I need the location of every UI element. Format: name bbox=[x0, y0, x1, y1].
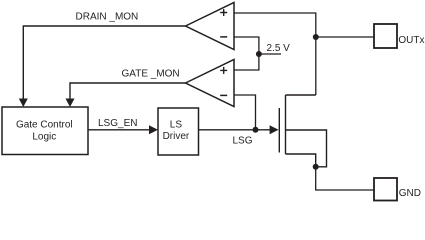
wire U1 - input down to U2 + input (reference rail) bbox=[234, 37, 259, 70]
svg-text:Driver: Driver bbox=[163, 131, 190, 142]
transistor Q1 (NMOS power FET) bbox=[279, 95, 326, 167]
wire U2 - input to LSG node bbox=[234, 95, 256, 130]
source stub bbox=[286, 154, 316, 167]
svg-text:Gate Control: Gate Control bbox=[16, 120, 73, 131]
wire to OUTx bbox=[316, 36, 374, 38]
arrowhead into Gate Control Logic top (GATE_MON) bbox=[66, 99, 75, 108]
arrowhead into Gate Control Logic top (DRAIN_MON) bbox=[19, 99, 28, 108]
drain stub bbox=[286, 94, 316, 96]
box Gate Control Logic bbox=[2, 107, 88, 155]
arrowhead at Q1 gate (LSG) bbox=[270, 125, 279, 134]
svg-text:2.5 V: 2.5 V bbox=[267, 43, 291, 54]
svg-text:GND: GND bbox=[399, 188, 421, 199]
svg-text:Logic: Logic bbox=[32, 131, 56, 142]
channel bar bbox=[285, 95, 287, 154]
node source junction bbox=[313, 164, 319, 170]
wire U1 + input to drain rail bbox=[234, 13, 316, 95]
arrowhead into LS Driver (LSG_EN) bbox=[149, 125, 158, 134]
svg-text:GATE _MON: GATE _MON bbox=[122, 68, 180, 79]
svg-text:LSG: LSG bbox=[233, 135, 253, 146]
node 2.5V junction bbox=[256, 51, 262, 57]
svg-text:LS: LS bbox=[170, 119, 183, 130]
box OUTx terminal bbox=[374, 24, 397, 48]
svg-text:DRAIN _MON: DRAIN _MON bbox=[76, 11, 139, 22]
node LSG junction bbox=[253, 127, 259, 133]
svg-text:OUTx: OUTx bbox=[398, 35, 424, 46]
comparator U1 (DRAIN monitor) bbox=[186, 3, 235, 50]
wire 2.5V stub bbox=[259, 53, 281, 55]
wire source to GND bbox=[316, 167, 374, 190]
wire LSG_EN (Gate Control Logic to LS Driver) bbox=[88, 129, 150, 131]
comparator U2 (GATE monitor) bbox=[186, 60, 235, 107]
node drain rail junction bbox=[313, 34, 319, 40]
body tie bbox=[286, 130, 327, 167]
svg-text:LSG_EN: LSG_EN bbox=[98, 118, 137, 129]
gate bar bbox=[278, 108, 280, 153]
wire LSG (LS Driver to Q1 gate) bbox=[199, 129, 271, 131]
box GND terminal bbox=[374, 178, 397, 201]
wire DRAIN_MON net (comparator U1 output to Gate Control Logic) bbox=[23, 26, 185, 100]
box LS Driver bbox=[158, 108, 199, 155]
wire GATE_MON net (comparator U2 output to Gate Control Logic) bbox=[70, 83, 186, 100]
